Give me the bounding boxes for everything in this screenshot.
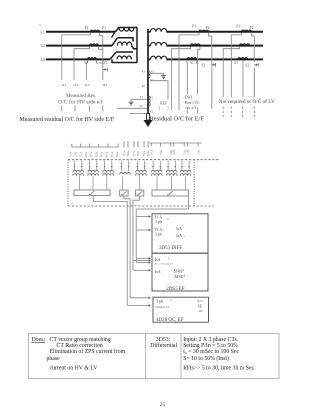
speck artifact [39,24,40,25]
svg-text:P2: P2 [142,84,146,88]
terminal labels left [69,151,119,157]
transformer LV star winding row 3 [148,56,263,59]
svg-text:8S1a: 8S1a [143,150,146,156]
transformer HV delta winding W2 [112,38,137,49]
label P2 HV CT [85,26,89,30]
svg-text:IE: IE [198,304,202,309]
svg-text:IL1: IL1 [62,83,67,87]
label S1 neutral lower [140,95,144,99]
svg-text:U6: U6 [70,203,74,206]
table text row5c1 [50,366,99,372]
svg-text:1: 1 [122,164,123,166]
ground symbol REF circuit [161,76,166,79]
svg-text:2: 2 [161,164,162,166]
svg-text:2DS5 EF: 2DS5 EF [166,287,185,292]
svg-text:6S1a: 6S1a [123,150,126,156]
svg-text:S1: S1 [140,95,144,99]
svg-text:t₀ = 30 mSec to 100 Sec: t₀ = 30 mSec to 100 Sec [183,349,239,355]
text diff label [183,95,193,100]
label P1 LV diff [192,25,196,29]
label S1 HV CT [103,61,107,65]
svg-text:P1: P1 [142,70,146,74]
label 4D28 OC EF [156,318,184,323]
svg-text:S= 10 to 50% (Inst): S= 10 to 50% (Inst) [183,355,229,362]
svg-text:12Sa: 12Sa [197,149,200,155]
text res oc label [183,100,200,105]
label IE1 residual [103,83,108,87]
svg-text:1: 1 [154,164,155,166]
wire IE1 stub [102,106,104,112]
wire LV diff lead b [171,46,190,110]
wire block3 entry 2 [127,304,151,306]
interposing CT T4 [120,161,131,191]
label res neutral ct [155,263,174,266]
svg-text:Res. or Neutral CT: Res. or Neutral CT [155,263,174,266]
transformer HV delta winding W1 [116,28,138,32]
wire LV diff stub c [186,108,188,114]
svg-text:3 ph: 3 ph [155,232,162,237]
terminal ticks left bracket [72,144,118,147]
label I1A bot [155,228,163,232]
label 2DS5 EF [166,287,185,292]
CT LV spare L2 primary [240,44,250,46]
label Igg b3 [197,299,204,304]
label S2 LV diff [202,63,206,67]
terminal ticks right bracket [151,143,198,147]
label IL2 [74,83,79,87]
relay enclosure dashed box [68,160,220,206]
label U6 enclosure [70,203,74,206]
svg-text:IsA→: IsA→ [176,233,186,238]
svg-text:IsA: IsA [155,269,161,274]
wire block1 entry 2 [136,229,151,231]
wire block2 entry 4 [133,269,151,271]
label IsA 1 [176,226,182,231]
svg-text:Neutral CT: Neutral CT [155,305,169,309]
label IE b3 [198,304,202,309]
node L2 label [41,44,45,48]
svg-text:2: 2 [190,164,191,166]
svg-text:S2: S2 [150,78,154,82]
svg-text:Differential: Differential [150,342,177,349]
wire CT HV L3 S2 lead IL3 [87,60,88,80]
wire block1 entry 1 [136,215,151,217]
svg-text:IL2: IL2 [74,83,79,87]
svg-text:2: 2 [112,164,113,166]
wire K3 output [133,196,140,270]
svg-text:L1: L1 [41,30,45,34]
svg-text:5S2a: 5S2a [116,151,119,157]
label neutral ct b3 [155,305,169,309]
wire IL3 stub [89,106,91,112]
svg-text:IsA: IsA [155,257,161,262]
wire IL2 stub [74,106,76,112]
label S2 HV CT [84,61,88,65]
terminal labels middle [123,150,150,156]
svg-text:1S1a: 1S1a [69,151,72,157]
text for ef label [185,105,196,110]
svg-text:ΔIE: ΔIE [199,310,204,313]
wire LV spare lead c [242,60,244,97]
svg-text:Does:: Does: [32,337,46,343]
wire LV spare lead b [223,46,239,97]
table text row3c1 [50,348,126,355]
svg-text:6S2a: 6S2a [127,150,130,156]
label IL3 [85,83,90,87]
svg-text:Not required or O/C of LV: Not required or O/C of LV [219,98,275,105]
transformer HV delta winding W3 [110,52,133,59]
wire block2 entry 2 [133,259,151,261]
svg-text:2S1a: 2S1a [80,151,83,157]
label 3ph bot [155,232,162,237]
svg-text:S1: S1 [103,61,107,65]
label U sym 1 [167,218,169,221]
svg-text:1S2a: 1S2a [75,151,78,157]
svg-text:ΔI RS*: ΔI RS* [173,268,184,273]
svg-text:1: 1 [169,164,170,166]
svg-text:Measured Res.: Measured Res. [66,93,96,99]
svg-text:7S1a: 7S1a [133,150,136,156]
svg-text:4S2a: 4S2a [106,151,109,157]
wire K4 output [136,196,188,263]
table text row4c3 [183,355,229,362]
label P2 neutral upper [142,84,146,88]
svg-text:IE1: IE1 [103,83,108,87]
CT HV L1 primary [91,30,100,32]
transformer LV star neutral bus [147,29,149,115]
svg-text:IL3: IL3 [85,83,90,87]
svg-text:P1: P1 [192,25,196,29]
ground earthing arrow HV residual [103,68,108,72]
svg-text:U: U [168,257,170,260]
svg-text:5S1a: 5S1a [111,151,114,157]
table column separator 2 [180,334,182,379]
svg-text:P2: P2 [85,26,89,30]
svg-text:U: U [170,299,172,302]
label dIse [174,274,185,279]
svg-text:Elimination of ZPS current fro: Elimination of ZPS current from [50,348,126,355]
label P2 LV spare [250,26,254,30]
wire LV spare stub 3 [242,107,244,118]
svg-text:9S2a: 9S2a [160,149,163,155]
wire block2 entry 1 [136,257,151,259]
wire block2 entry 3 [136,261,151,263]
wire terminal bracket right [149,142,202,144]
transformer delta frame [112,28,137,63]
label IsA b2 [155,257,161,262]
wire LV diff stub d [196,108,198,114]
label P1 neutral upper [142,70,146,74]
table text row4c1 [47,356,61,362]
svg-text:2: 2 [145,164,146,166]
wire LV spare stub 1 [222,107,224,118]
text measured res [66,93,96,99]
CT neutral upper winding [149,72,150,78]
svg-text:2: 2 [176,164,177,166]
wire terminal bracket left [72,146,119,148]
CT LV diff L2 primary [191,44,201,46]
wire L2 HV phase line [46,45,112,47]
label 3ph top [155,219,162,224]
interposing CT T1 [73,161,84,191]
table column separator 1 [145,334,147,379]
svg-text:2: 2 [97,164,98,166]
svg-text:3 ph: 3 ph [156,299,163,304]
label S2 neutral lower [139,104,143,108]
label IsA b2b [155,269,161,274]
svg-text:CT Ratio correction: CT Ratio correction [57,343,103,349]
wire caption leader [129,113,147,115]
label U sym 3 [170,299,172,302]
wire L3 HV phase line [46,58,110,60]
svg-text:S1: S1 [151,69,155,73]
table text row1c1 [50,337,111,343]
svg-text:3 ph: 3 ph [155,219,162,224]
svg-text:1: 1 [75,164,76,166]
label REF relay [160,102,167,106]
wire L1 HV phase line [46,31,116,33]
relay element K4 box [152,190,189,196]
svg-text:2: 2 [129,164,130,166]
ground neutral earthing arrow [144,114,153,128]
relay element K1 box [74,190,110,196]
page number [160,402,166,408]
svg-text:3S1a: 3S1a [90,151,93,157]
node L1 label [41,30,45,34]
transformer delta link A [112,33,115,38]
terminal labels right [150,149,200,155]
wire LV diff lead d [197,46,201,94]
svg-text:Measured residual O/C for HV s: Measured residual O/C for HV side E/F [20,116,115,123]
label S2 LV spare [245,64,249,68]
label P1 neutral lower [150,95,154,99]
svg-text:ΔI SE*: ΔI SE* [174,274,185,279]
CT LV spare L1 primary [241,30,251,32]
wire LV spare stub 4 [253,107,255,118]
wire CT HV L2 S2 lead IL2 [74,46,90,80]
label dIrs [173,268,184,273]
svg-text:S2: S2 [202,63,206,67]
table text row1c3 [183,337,239,343]
label I1A top [155,215,163,219]
text oc hv side [58,98,103,105]
wire CT HV S1 residual bus [97,33,103,80]
svg-text:S1: S1 [190,61,194,65]
svg-text:P2: P2 [150,110,154,114]
svg-text:7S2a: 7S2a [137,150,140,156]
wire LV spare earth lead [252,33,255,97]
label IL1 [62,83,67,87]
svg-text:3S2a: 3S2a [95,151,98,157]
text measured residual caption [20,116,115,123]
svg-text:P1: P1 [102,26,106,30]
svg-text:P2: P2 [250,26,254,30]
wire IL1 stub [61,106,63,112]
transformer LV star winding row 1 [148,29,263,32]
label P2 LV diff [206,26,210,30]
interposing CT T3 [103,161,114,191]
table text row5c3 [183,366,256,372]
terminal stubs middle [124,141,148,148]
label IsA 2 [176,233,186,238]
wire K1 output [93,196,127,306]
node L3 label [41,58,45,62]
table text row2c3 [183,343,238,349]
svg-text:S2: S2 [245,64,249,68]
svg-text:phase: phase [47,356,61,362]
label 3ph b3 [156,299,163,304]
relay element K3 box [136,190,144,196]
table text 3D53 [156,337,171,343]
svg-text:current on HV & LV: current on HV & LV [50,366,99,372]
svg-text:10Sb: 10Sb [173,149,176,155]
svg-text:1: 1 [183,164,184,166]
label U sym 2 [168,257,170,260]
label S2 neutral upper [150,78,154,82]
wire LV diff lead c [186,60,188,94]
svg-text:REF: REF [160,102,167,106]
svg-text:U: U [167,218,169,221]
label S1 LV diff [190,61,194,65]
wire neutral lower S1 to earth [131,99,147,102]
CT LV diff L3 primary [187,58,197,60]
label P1 HV CT [102,26,106,30]
table outer border [29,334,280,379]
label 3DS3 DIFF [159,246,182,251]
svg-text:S1: S1 [234,61,238,65]
CT HV L2 primary [90,44,99,46]
svg-text:25: 25 [160,402,166,408]
relay element K2 box [120,190,128,196]
CT HV L3 primary [88,58,97,60]
svg-text:1: 1 [105,164,106,166]
label S1 neutral upper [151,69,155,73]
relay 3DS3 differential block [152,214,208,253]
interposing CT T5 [136,161,147,191]
interposing CT T6 [151,161,162,191]
wire LV diff lead a [179,33,199,110]
label P1 LV spare [236,24,240,28]
svg-text:O/C for HV side e/f: O/C for HV side e/f [58,98,103,105]
svg-text:11Sb: 11Sb [187,149,190,155]
svg-text:IsA: IsA [176,226,182,231]
svg-text:9S1a: 9S1a [150,149,153,155]
svg-text:P1: P1 [150,95,154,99]
ground earthing arrow LV spare [254,63,258,66]
svg-text:S2: S2 [139,104,143,108]
text not required [219,98,275,105]
wire neutral lower S2 left [117,107,147,109]
svg-text:2: 2 [82,164,83,166]
table text row2c1 [57,343,103,349]
wire LV diff earth lead [209,33,212,109]
table text row3c3 [183,349,239,355]
relay 2DS5 EF block [152,253,208,291]
svg-text:4D28 OC, EF: 4D28 OC, EF [156,318,184,323]
wire K2 output [124,196,130,298]
svg-text:L3: L3 [41,58,45,62]
wire LV spare stub 2 [230,107,232,118]
interposing CT T8 [180,161,191,191]
svg-text:Id/Is>> 5 to 30, time 30 m Sec: Id/Is>> 5 to 30, time 30 m Sec. [183,366,256,372]
svg-text:for e/f: for e/f [185,105,196,110]
wire neutral upper S1 to earth [150,73,164,75]
label dIE b3 [199,310,204,313]
text residual oc caption [150,116,205,123]
CT LV spare L3 primary [238,58,248,60]
svg-text:2S2a: 2S2a [85,151,88,157]
svg-text:Setting P/In = 5 to 50%: Setting P/In = 5 to 50% [183,343,238,349]
svg-text:P2: P2 [206,26,210,30]
relay 4D28 OC EF block [153,297,209,322]
wire CT HV L1 S2 lead IL1 [62,33,91,80]
svg-text:1: 1 [138,164,139,166]
table text differential [150,342,177,349]
wire REF stubs [160,107,169,111]
label P2 neutral lower [150,110,154,114]
CT LV diff L1 primary [199,30,209,32]
wire block3 entry 1 [130,297,151,299]
wire LV spare lead a [231,33,241,97]
svg-text:3D53 DIFF: 3D53 DIFF [159,246,182,251]
ground earthing arrow LV diff [212,63,216,66]
transformer LV star winding row 2 [148,42,263,45]
CT neutral lower winding [149,96,150,106]
svg-text:4S1a: 4S1a [101,151,104,157]
table text does [32,337,46,343]
svg-text:L2: L2 [41,44,45,48]
ground symbol residual circuit [129,102,134,105]
label S1 LV spare [234,61,238,65]
svg-text:Residual O/C for E/F: Residual O/C for E/F [150,116,205,123]
svg-text:P1: P1 [236,24,240,28]
wire neutral upper S2 to REF [150,81,168,100]
interposing CT T2 [88,161,99,191]
svg-text:1: 1 [90,164,91,166]
interposing CT T7 [166,161,177,191]
